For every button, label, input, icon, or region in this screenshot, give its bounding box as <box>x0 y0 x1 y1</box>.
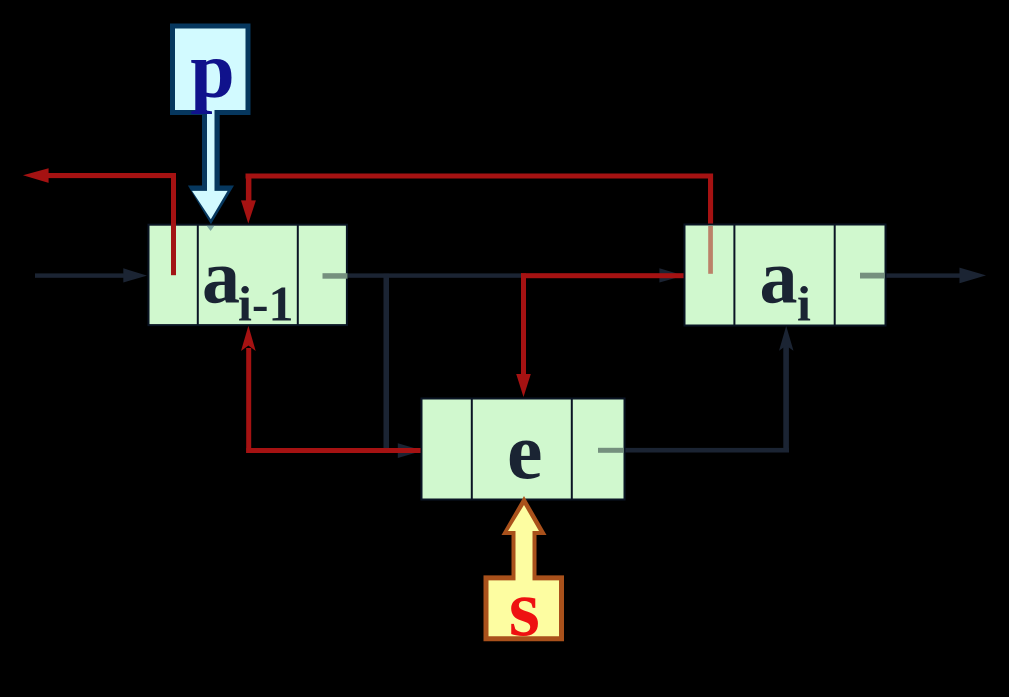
svg-text:a: a <box>202 235 240 319</box>
wire red path D: from a_i left side down into top of e <box>516 273 686 397</box>
node a_i box <box>685 225 886 326</box>
svg-text:a: a <box>760 235 798 319</box>
wire gray-green stub inside a_i-1 next cell <box>323 273 348 279</box>
pointer s interior <box>489 505 560 636</box>
node a_i-1 box <box>149 225 347 325</box>
wire red path A: a_i-1 prev cell up, left, off-screen arrow <box>23 168 176 277</box>
wire navy next link from a_i-1 toward a_i <box>347 273 661 277</box>
wire navy outgoing arrow from a_i to right edge <box>884 273 962 277</box>
wire red path B: from a_i prev cell up, left along top, down to a_i-1 top <box>241 174 713 224</box>
pointer p interior <box>175 29 246 220</box>
wire gray-green stub inside e next cell <box>598 448 623 453</box>
wire navy from node e right cell to a_i bottom <box>623 448 789 453</box>
arrowhead navy into left edge of e <box>398 443 423 458</box>
wire red stub inside a_i-1 prev cell <box>171 223 176 275</box>
wire navy branch down at x=390 to node e <box>384 273 390 453</box>
svg-text:s: s <box>509 565 540 653</box>
svg-text:e: e <box>507 409 543 497</box>
svg-text:i: i <box>797 276 811 332</box>
wire gray-green stub inside a_i next cell <box>860 273 884 279</box>
svg-text:i-1: i-1 <box>238 276 294 332</box>
wire navy short horizontal into node e left <box>384 448 404 452</box>
pointer p arrow tip remnant inside node <box>207 226 215 231</box>
pointer p box with arrow down into a_i-1 (union silhouette) <box>170 24 251 225</box>
wire red path C: from node e left side to bottom of a_i-1 <box>241 326 423 453</box>
wire navy incoming arrow into node a_i-1 from left <box>35 268 147 282</box>
node e box <box>422 399 625 500</box>
svg-text:p: p <box>190 27 235 115</box>
arrowhead navy into left edge of a_i <box>659 268 684 282</box>
pointer s box with arrow up into e (union silhouette) <box>484 496 565 641</box>
arrowhead navy up into bottom of a_i <box>779 326 794 351</box>
wire brown-red stub inside a_i prev cell <box>708 226 713 274</box>
